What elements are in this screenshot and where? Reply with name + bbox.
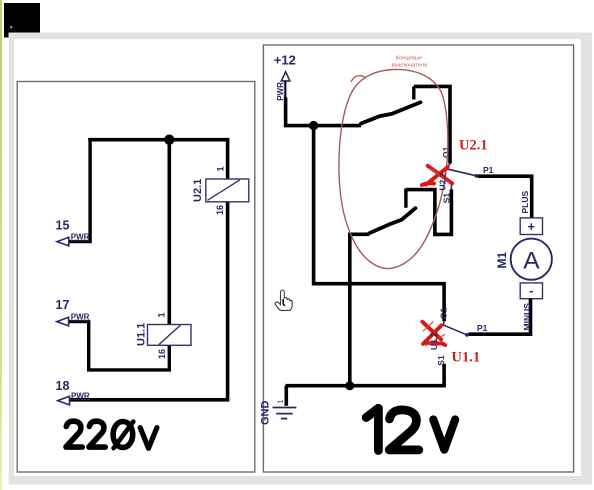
net label PWR (18) bbox=[71, 391, 91, 400]
svg-text:M1: M1 bbox=[495, 252, 509, 269]
svg-text:17: 17 bbox=[56, 298, 70, 312]
svg-text:MINUS: MINUS bbox=[522, 303, 532, 331]
svg-text:+: + bbox=[528, 219, 536, 234]
svg-text:PWR: PWR bbox=[71, 313, 90, 322]
svg-text:1: 1 bbox=[278, 400, 285, 404]
junction dot B bbox=[309, 121, 318, 130]
net label PWR (15) bbox=[70, 233, 90, 242]
svg-text:18: 18 bbox=[56, 379, 70, 393]
junction dot C bbox=[345, 381, 354, 390]
annotation: red ellipse around limit switches bbox=[339, 69, 448, 268]
ammeter M1 body bbox=[511, 239, 552, 280]
upper limit switch fixed contact stub bbox=[412, 86, 415, 99]
net label PWR (17) bbox=[70, 313, 90, 322]
wire: upper contact bar to U2.1 contact O1 bbox=[414, 86, 450, 163]
wire: junction to U1.1 pin 1 bbox=[168, 140, 172, 325]
+12 power port arrow bbox=[281, 72, 290, 81]
svg-text:U1.1: U1.1 bbox=[452, 349, 481, 365]
wire: port 15 to top bus bbox=[69, 140, 91, 242]
svg-text:выключатели: выключатели bbox=[392, 62, 428, 68]
wire: port 17 to U1.1 pin 16 bbox=[68, 322, 169, 370]
wire: +12 stem bbox=[285, 81, 287, 98]
svg-text:-: - bbox=[529, 283, 533, 298]
svg-text:16: 16 bbox=[215, 205, 225, 215]
left schematic frame (220v) bbox=[17, 82, 255, 473]
contact U1.1 pivot dot P1 bbox=[465, 333, 469, 337]
lower limit switch fixed contact stub bbox=[404, 189, 407, 208]
wire: ground drop bbox=[284, 386, 288, 406]
svg-text:P1: P1 bbox=[477, 323, 488, 333]
wire: lower switch common down to ground bus bbox=[348, 234, 352, 385]
caption 220v bbox=[66, 421, 157, 448]
svg-text:1: 1 bbox=[216, 166, 226, 171]
svg-text:P1: P1 bbox=[483, 165, 494, 175]
svg-text:PLUS: PLUS bbox=[520, 191, 530, 214]
relay contact U2.1 (crossed out) bbox=[444, 164, 476, 176]
svg-text:U2.1: U2.1 bbox=[192, 179, 204, 202]
wire: top horizontal bus bbox=[88, 138, 229, 142]
annotation: ellipse pen hook bbox=[351, 76, 366, 82]
net label PWR (+12), rotated bbox=[276, 82, 285, 101]
wire: staple to contact S1 pin (navy) bbox=[450, 184, 452, 190]
upper limit switch blade bbox=[361, 102, 421, 123]
svg-text:U2.1: U2.1 bbox=[459, 137, 488, 153]
svg-text:PWR: PWR bbox=[71, 233, 90, 242]
svg-text:1: 1 bbox=[157, 312, 167, 317]
port 17 arrow bbox=[57, 317, 69, 326]
ammeter M1 minus terminal box bbox=[520, 283, 542, 299]
svg-text:16: 16 bbox=[157, 349, 167, 359]
annotation: red X over contact U2.1 bbox=[422, 166, 452, 185]
lower limit switch blade bbox=[369, 208, 415, 233]
port 15 arrow bbox=[57, 237, 69, 246]
ground symbol bbox=[273, 408, 297, 419]
svg-text:O1: O1 bbox=[439, 307, 449, 319]
svg-text:Концевые: Концевые bbox=[396, 56, 423, 62]
svg-text:GND: GND bbox=[260, 401, 272, 426]
port 18 arrow bbox=[58, 396, 70, 405]
svg-text:U2.2: U2.2 bbox=[438, 172, 448, 190]
wire: +12 feed to upper switch bbox=[286, 98, 361, 126]
relay coil U2.1 bbox=[206, 179, 249, 202]
right schematic frame (12v) bbox=[263, 45, 573, 472]
lower limit switch common stub bbox=[348, 233, 369, 237]
ammeter M1 plus terminal box bbox=[520, 218, 542, 235]
svg-text:O1: O1 bbox=[441, 146, 451, 158]
wire: U1.1 S1 down to ground bus bbox=[285, 364, 444, 386]
svg-text:A: A bbox=[523, 247, 540, 274]
svg-text:+12: +12 bbox=[274, 52, 296, 67]
wire: U2.1 P1 to ammeter plus bbox=[478, 176, 532, 218]
svg-text:PWR: PWR bbox=[71, 391, 90, 400]
wire: top bus to U2.1 pin 1 bbox=[226, 140, 230, 180]
svg-text:15: 15 bbox=[56, 218, 70, 232]
wire: U2.1 pin 16 to port 18 bbox=[69, 202, 228, 400]
annotation: red X over contact U1.1 bbox=[422, 322, 445, 346]
cursor icon (hand pointer) bbox=[275, 290, 292, 310]
relay coil U1.1 bbox=[148, 325, 192, 346]
relay contact U1.1 (crossed out) bbox=[443, 322, 467, 335]
wire: ammeter minus to U1.1 P1 bbox=[469, 299, 531, 335]
junction dot A bbox=[164, 135, 174, 145]
svg-text:U1.2: U1.2 bbox=[429, 332, 439, 350]
contact U2.1 pivot dot P1 bbox=[475, 174, 479, 178]
svg-text:U1.1: U1.1 bbox=[136, 323, 148, 346]
caption 12v bbox=[366, 408, 455, 450]
wire: junction B down, across, to U1.1 contact O1 bbox=[314, 126, 445, 322]
wire: lower contact bar, staple to U2.1 S1 bbox=[406, 189, 452, 234]
